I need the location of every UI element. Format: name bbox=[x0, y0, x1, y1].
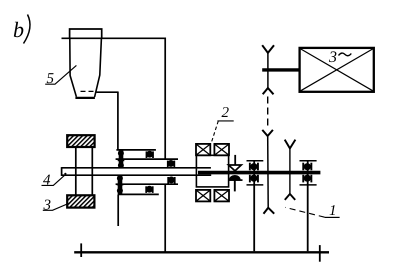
second pulley top groove bbox=[285, 140, 296, 149]
label 3 bbox=[43, 197, 69, 213]
gearbox 2 bearing LL (X-square) bbox=[196, 190, 210, 202]
bearing balls column A upper bbox=[118, 150, 125, 168]
motor diagonals bbox=[301, 49, 373, 91]
base right tick bbox=[319, 245, 321, 262]
drum 3 top flange (hatched) bbox=[67, 135, 94, 147]
bearing ball B lower bbox=[145, 186, 153, 193]
label 5 bbox=[45, 65, 76, 87]
coupling lower stem bbox=[234, 180, 236, 191]
svg-text:b: b bbox=[13, 17, 24, 42]
motor pulley top groove bbox=[262, 45, 274, 53]
left bearing block plate P1 bbox=[116, 149, 155, 151]
gearbox 2 bearing UL (X-square) bbox=[196, 144, 210, 155]
hopper 5 top flange bbox=[70, 29, 102, 38]
bearing ball B upper bbox=[146, 151, 154, 158]
driven pulley bottom groove bbox=[264, 208, 275, 214]
coupling upper stem bbox=[234, 155, 236, 165]
base frame line bbox=[74, 251, 329, 253]
gearbox 2 housing bbox=[196, 155, 228, 187]
motor shaft bbox=[262, 68, 299, 71]
drum 3 left wall bbox=[75, 147, 77, 195]
driven pulley stem bbox=[267, 136, 270, 208]
second pulley stem bbox=[289, 148, 291, 194]
left bearing block plate P3 bbox=[116, 183, 178, 185]
gearbox 2 bearing UR (X-square) bbox=[214, 144, 229, 155]
coupling upper cone bbox=[229, 165, 242, 171]
driven pulley top groove bbox=[262, 130, 273, 136]
drum 3 right wall bbox=[91, 147, 93, 195]
bearing D plates bbox=[247, 161, 264, 185]
svg-text:3: 3 bbox=[43, 197, 52, 213]
bearing E plates bbox=[300, 161, 317, 185]
wire: right support lower segment to base bbox=[164, 184, 166, 251]
svg-text:2: 2 bbox=[222, 105, 230, 121]
hopper 5 gate dashed line bbox=[81, 90, 96, 92]
bearing balls column A lower bbox=[117, 175, 124, 194]
label 1 bbox=[285, 203, 339, 219]
motor pulley stem bbox=[267, 53, 269, 88]
motor M (3~) box bbox=[300, 48, 374, 92]
svg-text:1: 1 bbox=[329, 203, 337, 219]
svg-text:3: 3 bbox=[328, 49, 337, 66]
label 2 bbox=[211, 105, 234, 144]
second pulley bottom groove bbox=[285, 194, 295, 200]
bearing D support bbox=[253, 161, 255, 252]
hollow shaft 4 (tube) bbox=[62, 167, 212, 176]
motor pulley bottom groove bbox=[263, 88, 274, 94]
base left tick bbox=[80, 243, 82, 257]
gearbox 2 bearing LR (X-square) bbox=[214, 190, 229, 202]
bearing ball C lower bbox=[167, 176, 175, 183]
hopper 5 body bbox=[70, 38, 77, 97]
wire: left support upper segment bbox=[117, 92, 119, 150]
left bearing block plate P2 bbox=[116, 158, 178, 160]
bearing D balls bbox=[249, 163, 259, 183]
left bearing block plate P4 bbox=[118, 193, 159, 195]
bearing E support bbox=[307, 161, 309, 252]
inner shaft (thick) bbox=[198, 171, 320, 175]
belt (dashed) bbox=[267, 97, 269, 129]
drum 3 bottom flange (hatched) bbox=[67, 195, 94, 207]
label 4 bbox=[42, 172, 67, 188]
coupling lower cone (filled) bbox=[229, 175, 241, 180]
wire: left support lower segment bbox=[117, 195, 119, 226]
bearing ball C upper bbox=[167, 160, 175, 167]
bearing E balls bbox=[302, 163, 312, 183]
wire: top horizontal line from hopper to right support bbox=[62, 37, 166, 39]
hopper 5 bottom edge bbox=[75, 97, 95, 99]
wire: hopper outlet line to left support bbox=[97, 91, 119, 93]
wire: right support upper segment bbox=[164, 38, 166, 159]
